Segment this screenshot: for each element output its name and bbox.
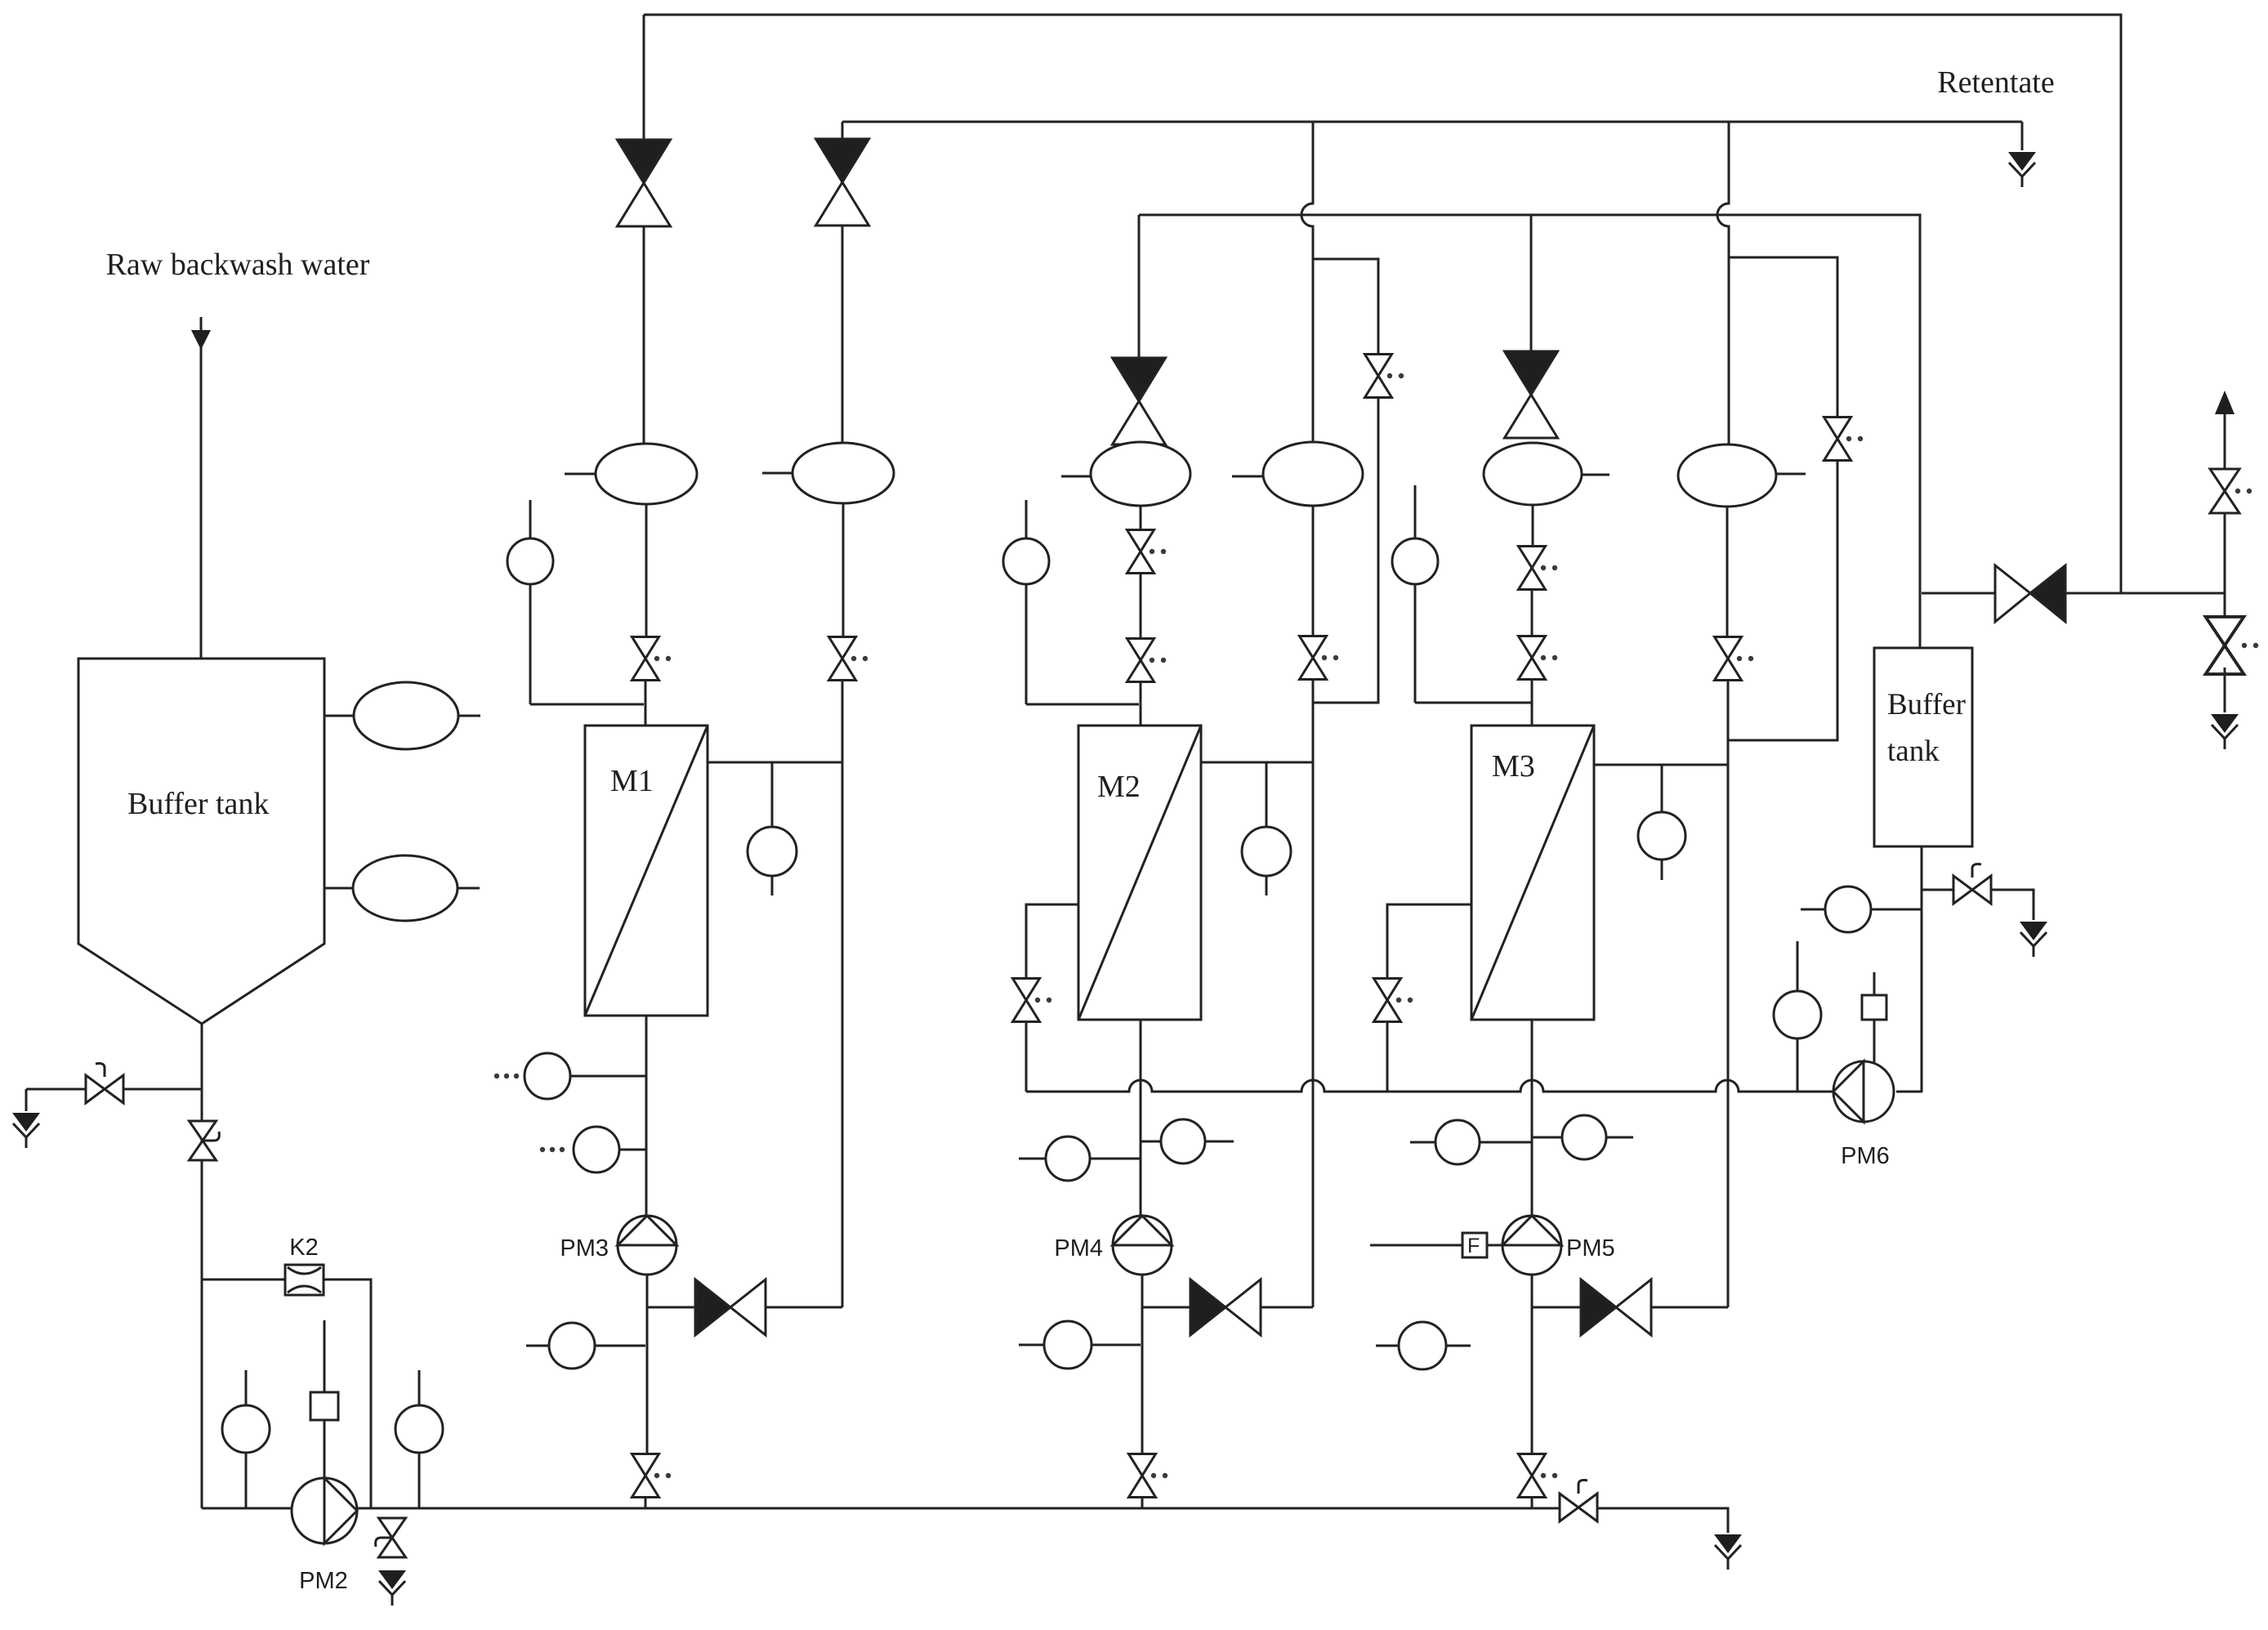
wire M1 permeate header xyxy=(708,761,842,764)
svg-text:PM4: PM4 xyxy=(1054,1235,1103,1262)
wire M2 return column xyxy=(1312,679,1315,1307)
wire PM5 to bottom manifold xyxy=(1531,1497,1534,1508)
pump PM6 xyxy=(1833,1061,1894,1169)
pump PM2 xyxy=(292,1478,357,1594)
svg-text:Buffer: Buffer xyxy=(1887,688,1966,721)
membrane module M1 xyxy=(585,726,708,1016)
wire M1 return riser top xyxy=(842,122,844,139)
pump PM3 xyxy=(560,1216,676,1275)
wire M2 drain from module xyxy=(1026,904,1078,978)
flow transmitter F line xyxy=(1370,1244,1462,1247)
wire PM5 suction xyxy=(1531,1275,1534,1454)
svg-text:M3: M3 xyxy=(1492,749,1535,784)
wire M2 bypass branch xyxy=(1313,259,1378,354)
valve manual M2 feed upper xyxy=(1127,530,1167,574)
flow transmitter F square xyxy=(1462,1233,1502,1257)
valve manual M3 feed upper xyxy=(1519,547,1558,590)
wire PM4 discharge crossover xyxy=(1142,1306,1190,1309)
arrow drain left xyxy=(12,1113,40,1148)
wire M1 feed riser xyxy=(643,226,645,444)
wire M2 return drop from header 2 with hop xyxy=(1301,122,1313,259)
valve tank drain flag xyxy=(1953,864,1991,904)
instrument ellipse M2 feed flow xyxy=(1061,442,1190,506)
instrument circle PM5 right xyxy=(1532,1115,1633,1159)
valve manual M2 feed lower xyxy=(1127,639,1167,682)
valve automatic M1 return xyxy=(816,139,869,226)
wire M1 return column xyxy=(842,680,844,1307)
svg-text:M2: M2 xyxy=(1097,770,1141,804)
arrow vent up xyxy=(2215,391,2235,469)
svg-text:PM6: PM6 xyxy=(1841,1143,1890,1169)
wire M3 feed seg2 xyxy=(1531,589,1534,636)
wire retentate branch drop xyxy=(2021,122,2024,150)
wire M3 return drop from header 2 with hop xyxy=(1717,122,1729,257)
instrument ellipse M2 return flow xyxy=(1232,442,1363,506)
wire crossover to M3 return column xyxy=(1651,1306,1728,1309)
transmitter square PM2 xyxy=(310,1320,338,1479)
wire M3 return mid xyxy=(1726,507,1729,636)
wire M3 feed into module xyxy=(1531,679,1534,726)
wire M1 return riser xyxy=(842,226,844,443)
instrument circle PM5 suction xyxy=(1376,1322,1471,1369)
wire bottom manifold xyxy=(202,1507,1560,1510)
svg-text:tank: tank xyxy=(1887,735,1940,768)
wire PM6 outlet xyxy=(1896,1091,1922,1093)
wire M3 drain to mid manifold xyxy=(1386,1022,1389,1092)
wire PM5 discharge crossover xyxy=(1532,1306,1581,1309)
wire retentate header line 1 xyxy=(644,15,2121,593)
instrument circle M2 permeate xyxy=(1242,762,1291,895)
valve manual M3 feed lower xyxy=(1519,636,1558,680)
membrane module M3 xyxy=(1471,726,1594,1020)
arrow tank drain xyxy=(2020,922,2047,957)
arrow blowdown drain xyxy=(378,1570,406,1605)
wire K2 down leg xyxy=(324,1279,371,1508)
wire M3 feed seg1 xyxy=(1532,505,1534,547)
valve manual M2 drain xyxy=(1013,979,1052,1022)
wire vent upper to tee xyxy=(2224,513,2226,593)
pump PM4 xyxy=(1054,1216,1172,1275)
wire M1 bottom to PM3 xyxy=(645,1016,648,1216)
instrument circle PM2 right xyxy=(395,1370,443,1508)
valve retentate return xyxy=(1995,565,2065,622)
wire M2 bottom to PM4 xyxy=(1140,1020,1142,1216)
instrument circle PM2 left xyxy=(222,1370,270,1508)
instrument circle recirc line xyxy=(1801,886,1922,932)
wire tank drain branch xyxy=(1922,889,1953,891)
wire tee to lower vent valve xyxy=(2224,593,2226,623)
wire PM3 to bottom manifold xyxy=(645,1497,647,1508)
wire crossover to M1 return column xyxy=(766,1306,842,1309)
instrument circle M3 feed pressure xyxy=(1392,485,1532,703)
wire M2 return upper xyxy=(1312,259,1315,442)
wire feed header line 3 xyxy=(1139,215,1920,648)
wire PM3 suction xyxy=(646,1275,649,1454)
wire retentate header line 2 xyxy=(842,121,2022,123)
instrument circle M1 concentrate 2 xyxy=(540,1127,645,1172)
svg-text:PM5: PM5 xyxy=(1566,1235,1615,1262)
instrument ellipse M3 feed flow xyxy=(1484,443,1609,505)
wire M3 return upper xyxy=(1728,257,1730,444)
arrow drain right vent xyxy=(2211,714,2239,749)
wire PM4 suction xyxy=(1141,1275,1144,1454)
instrument ellipse M1 return flow xyxy=(762,443,894,503)
wire crossover to M2 return column xyxy=(1261,1306,1313,1309)
svg-text:M1: M1 xyxy=(610,764,654,798)
check valve PM5 xyxy=(1581,1279,1651,1335)
wire M1 return mid xyxy=(842,503,845,636)
wire raw water inlet xyxy=(200,317,203,659)
wire M2 bypass return xyxy=(1313,397,1378,703)
valve bottom manifold end flag xyxy=(1560,1480,1597,1521)
valve manual M1 feed xyxy=(632,637,672,681)
wire M2 feed into module xyxy=(1140,681,1142,726)
instrument circle M1 feed pressure xyxy=(507,500,644,704)
wire PM3 discharge crossover xyxy=(647,1306,695,1309)
wire M1 feed into module xyxy=(645,680,647,726)
instrument circle PM6 suction xyxy=(1774,941,1821,1092)
instrument circle PM4 right xyxy=(1141,1119,1234,1163)
arrow raw water inlet xyxy=(191,330,211,350)
pump PM5 xyxy=(1502,1216,1615,1275)
wire M2 feed seg2 xyxy=(1140,573,1142,639)
valve manual M1 return xyxy=(829,637,868,681)
instrument circle M1 permeate xyxy=(748,762,797,895)
wire M1 feed riser top xyxy=(643,15,645,140)
instrument circle PM3 suction xyxy=(526,1323,645,1369)
valve manual M2 return xyxy=(1300,636,1339,680)
instrument circle PM5 left xyxy=(1410,1120,1532,1164)
wire K2 branch xyxy=(202,1279,285,1281)
check valve PM4 xyxy=(1190,1279,1261,1335)
wire M2 return mid xyxy=(1312,506,1315,636)
svg-text:PM2: PM2 xyxy=(299,1568,348,1594)
svg-text:Retentate: Retentate xyxy=(1937,65,2054,100)
buffer tank right xyxy=(1874,648,1972,846)
valve manual PM5 suction xyxy=(1519,1454,1558,1498)
instrument circle PM4 left upper xyxy=(1019,1137,1141,1181)
arrow retentate outlet xyxy=(2008,152,2036,187)
instrument circle PM4 suction xyxy=(1019,1321,1141,1369)
buffer tank left xyxy=(78,659,324,1024)
arrow manifold end drain xyxy=(1714,1534,1742,1570)
wire M3 return column xyxy=(1727,680,1730,1307)
valve manual PM3 suction xyxy=(632,1454,672,1498)
valve automatic M1 feed xyxy=(618,140,671,226)
valve vent lower xyxy=(2206,617,2259,674)
transmitter square PM6 xyxy=(1862,972,1886,1063)
instrument ellipse M3 return flow xyxy=(1678,444,1806,507)
valve manual M3 drain xyxy=(1374,979,1413,1022)
wire tank drain corner xyxy=(1991,890,2034,920)
svg-text:PM3: PM3 xyxy=(560,1235,609,1262)
wire M3 bypass branch xyxy=(1729,257,1837,417)
wire M2 permeate header xyxy=(1201,761,1313,764)
wire recirculation valve line xyxy=(1922,592,1995,595)
wire mid manifold with hops xyxy=(1026,1080,1833,1092)
wire tank bottom column xyxy=(1921,846,1923,1092)
wire M1 feed to valve xyxy=(645,504,648,636)
wire tank drain left xyxy=(26,1088,202,1091)
check valve PM3 xyxy=(695,1279,766,1335)
svg-text:Buffer tank: Buffer tank xyxy=(127,787,269,821)
valve manual M2 bypass xyxy=(1365,355,1404,398)
instrument circle M2 feed pressure xyxy=(1003,500,1139,704)
instrument circle M3 permeate xyxy=(1638,765,1685,880)
wire manifold end corner xyxy=(1597,1508,1728,1533)
valve manual M3 return xyxy=(1715,637,1754,681)
wire M2 drain to mid manifold xyxy=(1025,1022,1028,1092)
valve vent upper xyxy=(2210,469,2252,513)
valve blowdown flag xyxy=(376,1518,406,1557)
component K2 xyxy=(285,1235,324,1295)
wire M2 feed seg1 xyxy=(1140,506,1142,530)
membrane module M2 xyxy=(1078,726,1201,1020)
valve tank drain left flag xyxy=(86,1064,123,1103)
wire M3 bottom to PM5 xyxy=(1531,1020,1534,1216)
valve automatic M2 feed xyxy=(1113,358,1166,444)
instrument ellipse M1 feed flow xyxy=(565,444,697,504)
instrument ellipse tank level 1 xyxy=(324,682,480,749)
svg-text:Raw backwash water: Raw backwash water xyxy=(106,248,370,282)
wire M2 feed riser top xyxy=(1138,215,1141,358)
valve automatic M3 feed xyxy=(1505,351,1558,438)
wire valve to vent tee xyxy=(2065,592,2225,595)
svg-text:F: F xyxy=(1467,1235,1480,1257)
instrument circle M1 concentrate 1 xyxy=(494,1053,645,1099)
wire drain left corner xyxy=(25,1089,28,1111)
wire PM4 to bottom manifold xyxy=(1141,1497,1144,1508)
valve tank outlet flag xyxy=(190,1121,220,1160)
valve manual M3 bypass xyxy=(1824,418,1864,461)
valve manual PM4 suction xyxy=(1129,1454,1168,1498)
wire M3 bypass return xyxy=(1728,460,1837,740)
wire M3 drain from module xyxy=(1387,904,1471,978)
wire M3 feed riser top xyxy=(1530,215,1533,351)
instrument ellipse tank level 2 xyxy=(324,855,480,921)
wire tank outlet pipe xyxy=(201,1024,203,1508)
wire vent lower drop xyxy=(2224,668,2226,712)
svg-text:K2: K2 xyxy=(289,1235,318,1261)
wire M3 permeate header xyxy=(1594,764,1728,766)
